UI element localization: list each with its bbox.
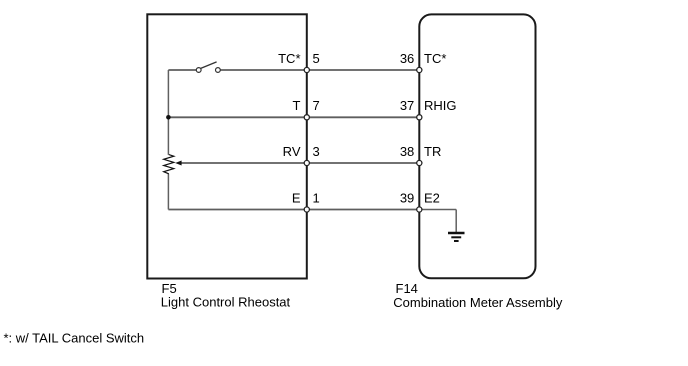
- svg-text:1: 1: [313, 190, 320, 205]
- wire E line (pin 1 to pin 39): [168, 209, 419, 211]
- svg-text:*: w/ TAIL Cancel Switch: *: w/ TAIL Cancel Switch: [4, 331, 145, 346]
- wire vertical bus lower segment (rheostat to E line): [167, 174, 169, 210]
- svg-text:E2: E2: [424, 190, 440, 205]
- svg-text:T: T: [293, 98, 301, 113]
- pin 5 circle: [304, 67, 309, 72]
- svg-text:39: 39: [400, 190, 414, 205]
- svg-text:TC*: TC*: [278, 51, 300, 66]
- svg-text:TR: TR: [424, 144, 441, 159]
- wire TC* line (pin 5 to pin 36), right of switch: [220, 69, 419, 71]
- svg-text:38: 38: [400, 144, 414, 159]
- svg-text:F14: F14: [396, 281, 418, 296]
- svg-text:E: E: [292, 190, 301, 205]
- wire E2 to ground (horizontal): [419, 209, 456, 211]
- svg-text:TC*: TC*: [424, 51, 446, 66]
- pin 39 circle: [417, 207, 422, 212]
- svg-text:3: 3: [313, 144, 320, 159]
- wire vertical bus upper segment (TC* line down to rheostat): [167, 70, 169, 155]
- junction node on T line: [166, 115, 171, 120]
- ground symbol bar 1: [448, 232, 465, 235]
- svg-text:Combination Meter Assembly: Combination Meter Assembly: [393, 295, 563, 310]
- pin 7 circle: [304, 115, 309, 120]
- pin 1 circle: [304, 207, 309, 212]
- switch S blade: [201, 62, 217, 69]
- wire E2 to ground (vertical): [455, 210, 457, 233]
- wire RV line (pin 3 to pin 38): [181, 162, 420, 164]
- svg-text:5: 5: [313, 51, 320, 66]
- ground symbol bar 2: [451, 236, 461, 238]
- svg-text:37: 37: [400, 98, 414, 113]
- rheostat wiper arrow: [175, 161, 181, 166]
- pin 38 circle: [417, 160, 422, 165]
- wire T line (pin 7 to pin 37): [168, 116, 419, 118]
- svg-text:RV: RV: [283, 144, 301, 159]
- switch S (TAIL cancel switch) contact circle left: [196, 68, 201, 73]
- rheostat VR1 zigzag: [164, 155, 174, 174]
- svg-text:36: 36: [400, 51, 414, 66]
- svg-text:Light Control Rheostat: Light Control Rheostat: [161, 295, 291, 310]
- pin 36 circle: [417, 67, 422, 72]
- ground symbol bar 3: [454, 240, 459, 242]
- connector F5 box (Light Control Rheostat): [147, 14, 306, 278]
- pin 3 circle: [304, 160, 309, 165]
- wire TC* line (pin 5 to pin 36), left of switch: [168, 69, 196, 71]
- pin 37 circle: [417, 115, 422, 120]
- switch S contact circle right: [216, 68, 221, 73]
- svg-text:RHIG: RHIG: [424, 98, 457, 113]
- svg-text:7: 7: [313, 98, 320, 113]
- connector F14 box (Combination Meter Assembly): [419, 14, 535, 278]
